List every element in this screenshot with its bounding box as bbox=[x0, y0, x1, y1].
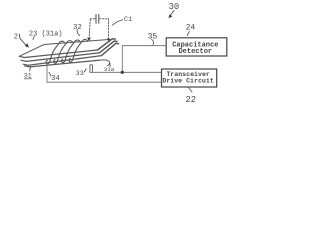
back edge of panel bbox=[19, 39, 110, 56]
sheet 1 front edge bbox=[19, 50, 97, 58]
capacitor C1 dashed right lead bbox=[108, 19, 110, 40]
leader for 31a bbox=[109, 64, 111, 67]
svg-text:Detector: Detector bbox=[178, 48, 212, 56]
svg-text:24: 24 bbox=[186, 25, 196, 33]
sheet 1 right bend bbox=[98, 39, 116, 50]
svg-text:32: 32 bbox=[73, 24, 82, 32]
junction dot bbox=[121, 71, 124, 74]
electrode 33 lead tab bbox=[90, 65, 93, 73]
sheet 3 front edge bbox=[23, 56, 101, 66]
sheet 3 right bend bbox=[102, 43, 119, 55]
leader for 31 bbox=[30, 67, 31, 71]
bottom edge sheet 3 bbox=[25, 60, 99, 67]
svg-text:23 (31a): 23 (31a) bbox=[29, 30, 63, 38]
leader for 22 bbox=[189, 88, 193, 93]
sheet 2 right bend bbox=[100, 41, 117, 53]
capacitor C1 plates bbox=[95, 15, 97, 24]
svg-text:34: 34 bbox=[51, 75, 60, 83]
leader for 35 bbox=[152, 40, 154, 45]
svg-text:22: 22 bbox=[186, 95, 197, 105]
arrow 30 bbox=[170, 10, 174, 15]
svg-text:Drive Circuit: Drive Circuit bbox=[162, 78, 213, 85]
coil 32 turn 1 bbox=[46, 41, 65, 64]
leader for 32 bbox=[77, 30, 79, 36]
svg-text:2: 2 bbox=[14, 34, 18, 42]
leader for 24 bbox=[187, 32, 189, 36]
svg-text:30: 30 bbox=[169, 2, 180, 12]
leader for 34 bbox=[49, 73, 51, 77]
arrowhead of C1 left lead on electrode bbox=[87, 38, 91, 42]
wire w1 electrode to capacitance detector bbox=[122, 46, 166, 73]
leader for 23 bbox=[33, 36, 34, 39]
capacitor C1 dashed top left bbox=[90, 18, 96, 20]
coil 32 turn 2 bbox=[54, 41, 73, 64]
wire w3 junction to transceiver bbox=[90, 71, 162, 73]
svg-text:33: 33 bbox=[76, 70, 84, 77]
capacitor C1 dashed left lead bbox=[89, 19, 90, 38]
leader for C1 bbox=[113, 20, 123, 25]
svg-text:31: 31 bbox=[24, 73, 32, 80]
coil 32 turn 4 bbox=[69, 39, 88, 62]
arrow 2 bbox=[19, 34, 25, 45]
arrowhead of C1 right lead bbox=[107, 39, 110, 42]
box U24 Capacitance Detector bbox=[166, 38, 227, 56]
capacitor C1 dashed top right bbox=[99, 18, 109, 20]
wire w5 lower electrode 34 to transceiver bbox=[47, 66, 162, 83]
box U22 Transceiver Drive Circuit bbox=[162, 69, 217, 87]
electrode 31a tip hook bbox=[99, 60, 110, 66]
svg-text:35: 35 bbox=[148, 33, 158, 42]
coil 32 turn 3 bbox=[61, 40, 80, 63]
svg-text:31a: 31a bbox=[104, 66, 115, 73]
svg-text:C1: C1 bbox=[124, 16, 132, 24]
leader for 33 bbox=[84, 69, 86, 72]
sheet 2 front edge bbox=[21, 53, 99, 62]
